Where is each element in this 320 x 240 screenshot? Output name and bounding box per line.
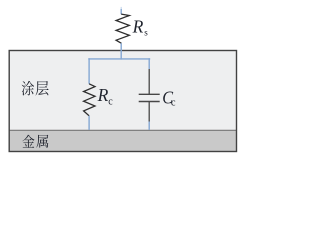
wire: left branch upper [88, 58, 90, 84]
label 金属 (metal) [22, 135, 48, 148]
resistor Rc [84, 84, 95, 116]
svg-text:c: c [171, 98, 176, 109]
label Rc [97, 85, 114, 108]
wire: right branch upper [148, 58, 150, 69]
label 涂层 (coating) [22, 81, 49, 96]
label Rs [132, 16, 149, 37]
wire: right branch lower [148, 122, 150, 130]
label Cc [162, 88, 176, 109]
svg-text:R: R [97, 85, 109, 105]
wire: Rs top lead [120, 7, 122, 14]
svg-text:c: c [108, 97, 113, 108]
outer box border [9, 51, 236, 152]
svg-text:s: s [144, 28, 148, 38]
coating layer box (涂层 region) [9, 51, 236, 152]
wire: Rs bottom lead [120, 43, 122, 59]
resistor Rs [116, 14, 129, 43]
wire: top horizontal bus [88, 58, 150, 60]
capacitor Cc [139, 69, 160, 122]
metal layer strip (金属 region) [9, 130, 236, 151]
svg-text:R: R [132, 16, 144, 36]
wire: left branch lower [88, 116, 90, 130]
